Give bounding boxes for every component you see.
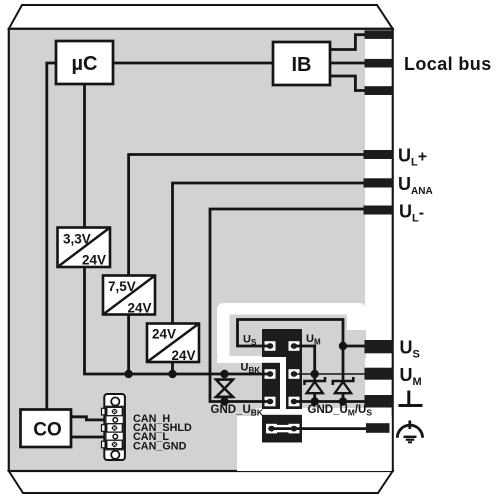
white band under GND labels xyxy=(257,408,367,417)
terminal bar FE earth xyxy=(366,423,390,433)
wire UL- to GND_UBK xyxy=(210,209,366,402)
terminal bar local bus 3 xyxy=(365,86,394,95)
wire UANA through 24V converter xyxy=(173,183,367,374)
wire US to terminal xyxy=(343,345,366,348)
wire CO to CAN_H xyxy=(71,417,115,420)
interbus IB box xyxy=(273,42,330,85)
jumper left column UBK xyxy=(262,363,280,409)
svg-text:GND_UM/US: GND_UM/US xyxy=(308,404,373,418)
svg-text:µC: µC xyxy=(72,53,98,75)
wire uC to IB xyxy=(113,62,273,65)
dc converter 3,3V/24V xyxy=(58,228,111,268)
terminal bar UL- xyxy=(364,206,394,215)
terminal bar local bus 2 xyxy=(365,59,394,68)
wire US loop xyxy=(238,320,344,347)
dc converter 24V/24V xyxy=(147,324,199,364)
white slot between jumper blocks xyxy=(262,357,286,363)
terminal bar UM xyxy=(365,368,394,380)
wire UL+ through 7,5V converter xyxy=(129,155,366,375)
window white band bottom-left xyxy=(217,356,263,363)
pad squares xyxy=(265,341,300,433)
CAN screw contact 2 xyxy=(102,424,123,432)
wire bottom jumper to earth terminal xyxy=(272,427,367,430)
junction dots xyxy=(124,342,347,406)
svg-text:24V: 24V xyxy=(127,301,151,316)
window inner gray panel xyxy=(230,315,367,360)
svg-text:US: US xyxy=(400,338,420,361)
wire GND_UM/US line xyxy=(294,400,366,403)
svg-text:IB: IB xyxy=(292,54,312,76)
wire uC through 3,3V converter to UBK bus xyxy=(85,84,271,374)
wire CO to CAN_L xyxy=(71,436,115,439)
wire IB to local bus 3 xyxy=(330,76,366,91)
wire UM line xyxy=(294,373,366,375)
svg-text:UL-: UL- xyxy=(399,202,424,225)
svg-text:24V: 24V xyxy=(171,348,195,363)
wire IB to local bus 2 xyxy=(330,62,366,65)
wire US diode branch xyxy=(342,346,345,402)
symbol GND terminal xyxy=(399,391,423,406)
CAN screw contact 1 xyxy=(102,407,123,415)
svg-text:UL+: UL+ xyxy=(398,146,427,169)
terminal bar local bus 1 xyxy=(365,30,394,39)
jumper bottom bar FE xyxy=(262,415,302,443)
terminal bar UANA xyxy=(364,178,394,187)
bottom bar wire channel xyxy=(267,425,299,432)
dc converter 7,5V/24V xyxy=(103,276,155,316)
jumper block US top xyxy=(262,329,302,357)
CAN wire entry 2 xyxy=(113,434,118,439)
svg-text:CO: CO xyxy=(33,420,62,441)
microcontroller uC box xyxy=(56,41,113,84)
CAN screw contact 3 xyxy=(102,440,123,448)
protection diode D2 UM xyxy=(305,377,326,393)
symbol FE earth xyxy=(397,421,422,443)
suppressor diode D1 UBK xyxy=(216,380,234,397)
module top face xyxy=(9,5,393,29)
terminal bar US xyxy=(365,340,394,353)
svg-text:UM: UM xyxy=(400,365,422,388)
white highlight window around US loop xyxy=(217,303,366,359)
svg-text:3,3V: 3,3V xyxy=(63,232,91,247)
terminal bar GND xyxy=(365,395,394,408)
module bottom face xyxy=(9,471,393,493)
wire IB to local bus 1 xyxy=(330,35,366,50)
svg-text:7,5V: 7,5V xyxy=(108,279,136,294)
CAN controller CO box xyxy=(21,410,72,448)
module front face xyxy=(9,29,393,471)
window white notch top-right xyxy=(347,314,366,330)
white gap between jumper columns xyxy=(280,357,286,412)
svg-text:24V: 24V xyxy=(82,253,106,268)
wire uC to CO xyxy=(47,63,56,410)
svg-text:CAN_GND: CAN_GND xyxy=(133,440,187,452)
CAN wire entry 1 xyxy=(113,418,118,423)
terminal bar UL+ xyxy=(364,150,394,159)
terminal strip white background xyxy=(365,30,392,470)
svg-text:Local bus: Local bus xyxy=(404,54,492,74)
wire UM pad branch with diode xyxy=(294,346,315,402)
pad contact circles xyxy=(267,343,298,431)
jumper right column xyxy=(286,329,302,409)
svg-text:UANA: UANA xyxy=(398,174,433,197)
svg-text:24V: 24V xyxy=(152,327,176,342)
CAN connector body xyxy=(104,394,125,460)
white bottom-right region xyxy=(237,416,392,471)
protection diode D3 US xyxy=(333,377,354,393)
